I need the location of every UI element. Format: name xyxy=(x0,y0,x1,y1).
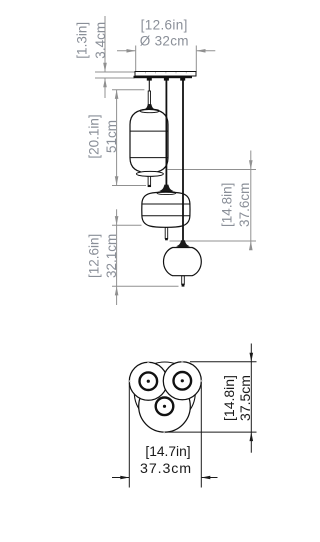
svg-text:37.5cm: 37.5cm xyxy=(237,375,253,421)
svg-text:[14.8in]: [14.8in] xyxy=(219,183,234,227)
svg-text:Ø 32cm: Ø 32cm xyxy=(140,34,189,49)
svg-text:[20.1in]: [20.1in] xyxy=(87,114,102,158)
svg-text:32.1cm: 32.1cm xyxy=(104,234,119,278)
svg-text:[14.7in]: [14.7in] xyxy=(145,444,190,459)
svg-text:[1.3in]: [1.3in] xyxy=(75,22,90,59)
svg-text:37.6cm: 37.6cm xyxy=(237,183,252,227)
svg-text:51cm: 51cm xyxy=(104,120,119,153)
svg-text:3.4cm: 3.4cm xyxy=(93,22,108,59)
svg-text:[12.6in]: [12.6in] xyxy=(141,18,188,33)
svg-text:[12.6in]: [12.6in] xyxy=(87,234,102,278)
svg-text:[14.8in]: [14.8in] xyxy=(221,375,237,421)
svg-text:37.3cm: 37.3cm xyxy=(140,461,192,477)
